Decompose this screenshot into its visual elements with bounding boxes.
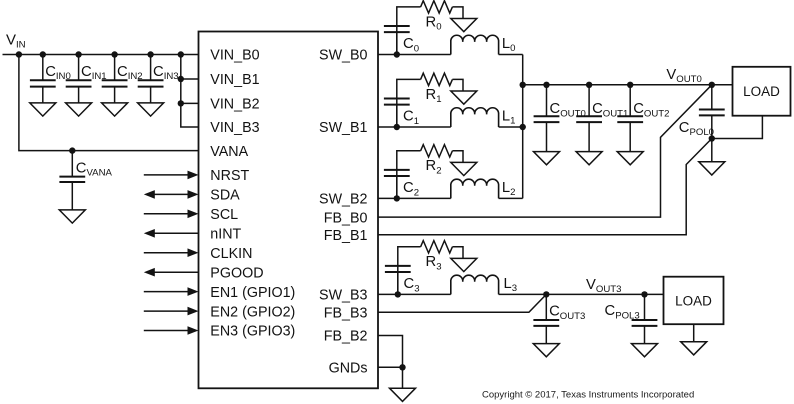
resistor R2 xyxy=(421,145,453,157)
svg-text:FB_B2: FB_B2 xyxy=(324,329,368,345)
wire L0 output to bus xyxy=(499,54,523,56)
wire GNDs to ground xyxy=(402,367,404,388)
svg-text:EN1 (GPIO1): EN1 (GPIO1) xyxy=(210,285,295,301)
ground for COUT1 xyxy=(576,152,602,165)
capacitor C1 xyxy=(384,99,410,128)
resistor R3 xyxy=(421,241,453,253)
wire VIN bus vertical xyxy=(181,55,199,128)
inductor L3 xyxy=(451,275,499,294)
capacitor C3 xyxy=(385,266,411,295)
wire R2 to ground xyxy=(452,151,463,163)
svg-text:CIN2: CIN2 xyxy=(117,64,143,82)
ground for CIN2 xyxy=(102,103,128,116)
svg-text:Copyright © 2017, Texas Instru: Copyright © 2017, Texas Instruments Inco… xyxy=(482,390,694,401)
wire FB_B0 sense xyxy=(378,85,712,217)
svg-text:L2: L2 xyxy=(502,180,516,198)
arrow EN1 signal xyxy=(144,287,199,296)
wire LOAD0 return xyxy=(712,116,763,139)
capacitor CVANA xyxy=(59,151,85,210)
junction VOUT0 sense node xyxy=(709,82,715,88)
junction VIN bus top xyxy=(178,51,184,57)
wire R3 to ground xyxy=(452,247,463,259)
junction CIN2 tap xyxy=(111,51,117,57)
capacitor CPOL0 xyxy=(699,85,725,139)
capacitor CIN3 xyxy=(138,55,164,103)
svg-text:C1: C1 xyxy=(403,109,419,127)
svg-text:R3: R3 xyxy=(426,254,442,272)
arrow NRST signal xyxy=(144,171,199,180)
svg-text:LOAD: LOAD xyxy=(743,84,780,99)
load block LOAD0 xyxy=(733,67,791,116)
ground for COUT2 xyxy=(617,152,643,165)
wire R1 to ground xyxy=(452,79,463,91)
svg-text:CIN3: CIN3 xyxy=(153,64,179,82)
capacitor COUT1 xyxy=(576,85,602,152)
wire FB_B1 sense xyxy=(378,139,712,235)
svg-text:GNDs: GNDs xyxy=(329,361,368,377)
arrow SDA signal xyxy=(144,190,199,199)
svg-text:R0: R0 xyxy=(426,14,442,32)
capacitor COUT3 xyxy=(533,294,559,343)
svg-text:FB_B3: FB_B3 xyxy=(324,306,368,322)
arrow EN3 signal xyxy=(144,326,199,335)
wire SW_B0 to inductor xyxy=(378,54,451,56)
op-amp U1 main IC body xyxy=(199,32,379,389)
svg-text:C0: C0 xyxy=(403,36,419,54)
inductor L0 xyxy=(451,35,499,54)
svg-text:FB_B0: FB_B0 xyxy=(324,210,368,226)
junction COUT2 tap xyxy=(627,82,633,88)
ground for R2 xyxy=(451,162,477,175)
svg-text:CLKIN: CLKIN xyxy=(210,246,252,262)
ground for LOAD3 xyxy=(681,342,707,355)
junction C3 tap xyxy=(395,291,401,297)
junction C2 tap xyxy=(394,195,400,201)
load block LOAD3 xyxy=(664,277,724,325)
svg-text:CPOL3: CPOL3 xyxy=(605,303,640,321)
svg-text:VOUT3: VOUT3 xyxy=(586,277,621,295)
svg-text:SW_B1: SW_B1 xyxy=(319,120,368,136)
ground for CPOL0 xyxy=(699,162,725,175)
svg-text:EN3 (GPIO3): EN3 (GPIO3) xyxy=(210,324,295,340)
ground for CIN1 xyxy=(66,103,92,116)
arrow EN2 signal xyxy=(144,307,199,316)
junction COUT0 tap xyxy=(543,82,549,88)
svg-text:VIN: VIN xyxy=(6,32,26,51)
junction bus to output rail xyxy=(520,82,526,88)
inductor L2 xyxy=(451,179,499,198)
svg-text:R2: R2 xyxy=(426,158,442,176)
capacitor CIN0 xyxy=(30,55,56,103)
junction CPOL3 tap xyxy=(641,291,647,297)
ground for COUT3 xyxy=(533,344,559,357)
svg-text:SCL: SCL xyxy=(210,207,238,223)
svg-text:VIN_B0: VIN_B0 xyxy=(210,48,259,64)
svg-text:C2: C2 xyxy=(403,180,419,198)
svg-text:SW_B0: SW_B0 xyxy=(319,48,368,64)
junction CVANA tap xyxy=(69,147,75,153)
wire C2 top to R2 xyxy=(397,151,421,170)
wire GNDs pin xyxy=(378,366,403,368)
wire VOUT0 rail xyxy=(523,84,733,86)
svg-text:L3: L3 xyxy=(504,276,518,294)
arrow PGOOD signal xyxy=(144,268,199,277)
wire CPOL0 to ground xyxy=(711,139,713,162)
svg-text:SW_B2: SW_B2 xyxy=(319,192,368,208)
wire SW_B3 to inductor xyxy=(378,293,451,295)
wire C0 top to R0 xyxy=(397,7,421,26)
ground for CPOL3 xyxy=(632,344,658,357)
ground for R0 xyxy=(451,19,477,32)
capacitor C0 xyxy=(384,26,410,55)
capacitor COUT0 xyxy=(534,85,560,152)
capacitor C2 xyxy=(384,170,410,199)
wire to VIN_B1 pin xyxy=(181,78,199,80)
capacitor CIN2 xyxy=(102,55,128,103)
junction CPOL0 bottom node xyxy=(709,135,715,141)
junction GNDs node xyxy=(399,364,405,370)
wire R0 to ground xyxy=(452,7,463,19)
svg-text:L1: L1 xyxy=(502,108,516,126)
wire VOUT3 rail xyxy=(499,293,664,295)
wire L1 output to bus xyxy=(499,126,523,128)
wire LOAD3 return xyxy=(693,324,695,342)
wire C3 top to R3 xyxy=(398,247,421,266)
junction VIN_B2 tap xyxy=(178,100,184,106)
junction COUT3 tap xyxy=(543,291,549,297)
arrow nINT signal xyxy=(144,229,199,238)
svg-text:CIN0: CIN0 xyxy=(45,64,71,82)
wire SW_B1 to inductor xyxy=(378,126,451,128)
svg-text:CPOL0: CPOL0 xyxy=(679,120,714,138)
wire FB_B2 to ground node xyxy=(378,336,403,368)
svg-text:VIN_B3: VIN_B3 xyxy=(210,120,259,136)
ground for R1 xyxy=(451,91,477,104)
svg-text:COUT2: COUT2 xyxy=(633,101,669,119)
capacitor COUT2 xyxy=(617,85,643,152)
ground for CIN3 xyxy=(138,103,164,116)
ground for GNDs xyxy=(390,388,416,401)
wire L2 output to bus xyxy=(499,197,523,199)
junction bus L1 xyxy=(520,124,526,130)
svg-text:LOAD: LOAD xyxy=(675,294,712,309)
junction C1 tap xyxy=(394,124,400,130)
junction CIN3 tap xyxy=(147,51,153,57)
wire C1 top to R1 xyxy=(397,79,421,98)
junction VIN node xyxy=(16,51,22,57)
wire SW_B2 to inductor xyxy=(378,197,451,199)
wire VIN input rail xyxy=(3,54,199,56)
junction C0 tap xyxy=(394,51,400,57)
svg-text:VANA: VANA xyxy=(210,144,248,160)
capacitor CPOL3 xyxy=(632,294,658,343)
junction CIN1 tap xyxy=(75,51,81,57)
junction CIN0 tap xyxy=(40,51,46,57)
svg-text:VIN_B1: VIN_B1 xyxy=(210,72,259,88)
svg-text:CIN1: CIN1 xyxy=(81,64,107,82)
svg-text:VIN_B2: VIN_B2 xyxy=(210,97,259,113)
svg-text:COUT3: COUT3 xyxy=(549,304,585,322)
svg-text:C3: C3 xyxy=(404,276,420,294)
svg-text:NRST: NRST xyxy=(210,168,249,184)
svg-text:SW_B3: SW_B3 xyxy=(319,288,368,304)
resistor R1 xyxy=(421,73,453,85)
arrow SCL signal xyxy=(144,210,199,219)
svg-text:nINT: nINT xyxy=(210,227,241,243)
wire to VIN_B2 pin xyxy=(181,102,199,104)
ground for R3 xyxy=(451,258,477,271)
svg-text:CVANA: CVANA xyxy=(76,160,113,178)
junction VIN_B1 tap xyxy=(178,76,184,82)
wire VOUT0 bus vertical xyxy=(522,55,524,199)
svg-text:L0: L0 xyxy=(502,36,516,54)
ground for CIN0 xyxy=(30,103,56,116)
wire FB_B3 sense xyxy=(378,294,546,312)
resistor R0 xyxy=(421,1,453,13)
svg-text:VOUT0: VOUT0 xyxy=(666,67,701,85)
svg-text:R1: R1 xyxy=(426,87,442,105)
ground for COUT0 xyxy=(534,152,560,165)
capacitor CIN1 xyxy=(66,55,92,103)
ground for CVANA xyxy=(59,210,85,223)
inductor L1 xyxy=(451,108,499,127)
svg-text:PGOOD: PGOOD xyxy=(210,265,263,281)
svg-text:SDA: SDA xyxy=(210,188,240,204)
wire VIN drop to VANA xyxy=(19,55,199,151)
svg-text:FB_B1: FB_B1 xyxy=(324,228,368,244)
junction COUT1 tap xyxy=(586,82,592,88)
arrow CLKIN signal xyxy=(144,248,199,257)
svg-text:EN2 (GPIO2): EN2 (GPIO2) xyxy=(210,304,295,320)
